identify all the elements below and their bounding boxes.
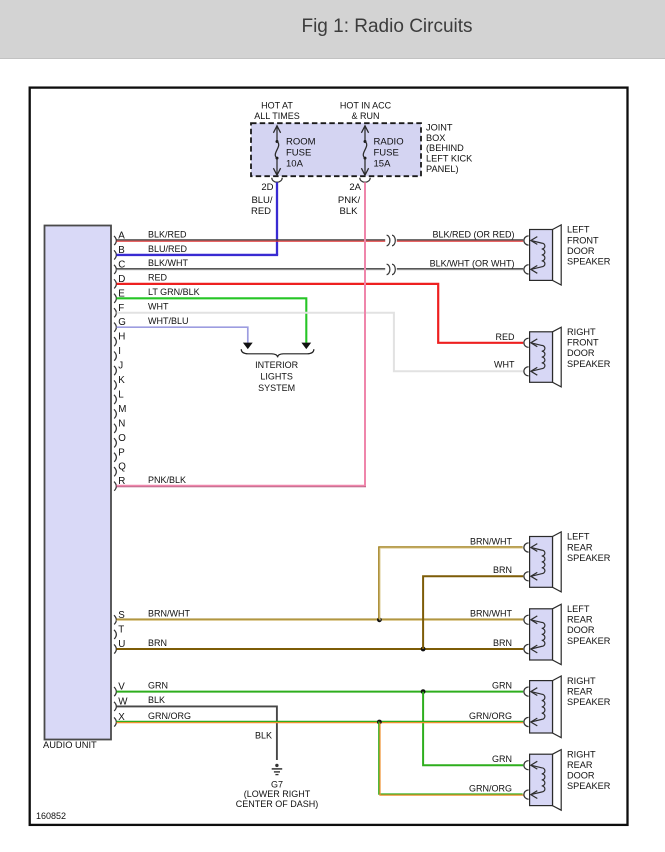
pin Q of audio unit (114, 462, 126, 477)
speaker body SP6 (530, 754, 553, 805)
speaker pin 1 arrow SP6 (531, 761, 538, 769)
interior lights system bracket (241, 349, 314, 357)
label SP4 name (567, 604, 611, 646)
pin J of audio unit (114, 361, 123, 376)
svg-text:15A: 15A (374, 158, 392, 169)
svg-text:J: J (118, 361, 123, 372)
svg-text:LEFT KICK: LEFT KICK (426, 153, 473, 163)
svg-text:P: P (118, 447, 125, 458)
svg-text:RIGHT: RIGHT (567, 749, 596, 759)
fuse element at x=277 (273, 126, 280, 175)
speaker horn SP4 (553, 604, 562, 664)
svg-text:FRONT: FRONT (567, 338, 599, 348)
pin T of audio unit (114, 624, 124, 639)
svg-text:SPEAKER: SPEAKER (567, 553, 611, 563)
wire A BLK/RED right segment to left front door speaker (397, 239, 523, 241)
svg-text:SPEAKER: SPEAKER (567, 781, 611, 791)
connector cup pin 1 SP6 (524, 761, 529, 770)
svg-text:O: O (118, 433, 126, 444)
inline connector on wire C (387, 264, 396, 274)
wire C BLK/WHT left segment (117, 268, 386, 270)
svg-text:BLK/RED (OR RED): BLK/RED (OR RED) (432, 230, 514, 240)
fuse value label (374, 137, 404, 170)
speaker pin 2 arrow SP3 (531, 572, 538, 580)
label SP6 name (567, 749, 611, 791)
svg-text:GRN: GRN (148, 680, 168, 690)
svg-text:L: L (118, 389, 124, 400)
svg-text:REAR: REAR (567, 760, 593, 770)
connector cup below fuse (360, 178, 370, 183)
label HOT AT ALL TIMES (254, 101, 300, 121)
pin C of audio unit (114, 259, 125, 274)
svg-text:BRN/WHT: BRN/WHT (470, 609, 512, 619)
wire X GRN/ORG to right rear speaker (117, 720, 524, 722)
speaker pin 1 arrow SP4 (531, 616, 538, 624)
svg-text:BOX: BOX (426, 133, 445, 143)
svg-text:LEFT: LEFT (567, 225, 590, 235)
wire C BLK/WHT right segment to left front door speaker (397, 268, 523, 270)
label G7 (LOWER RIGHT CENTER OF DASH) (236, 780, 319, 810)
speaker pin 1 arrow SP1 (531, 237, 538, 245)
speaker pin 2 arrow SP4 (531, 645, 538, 653)
speaker coil SP6 (531, 765, 545, 794)
svg-text:REAR: REAR (567, 542, 593, 552)
svg-text:M: M (118, 404, 126, 415)
pin G of audio unit (114, 317, 126, 332)
speaker coil SP4 (531, 620, 545, 649)
svg-text:LEFT: LEFT (567, 532, 590, 542)
pin N of audio unit (114, 418, 125, 433)
speaker pin 2 arrow SP6 (531, 791, 538, 799)
pin K of audio unit (114, 375, 125, 390)
wire W BLK to ground G7 (117, 706, 277, 760)
speaker body SP1 (530, 230, 553, 281)
svg-text:SYSTEM: SYSTEM (258, 383, 295, 393)
pin O of audio unit (114, 433, 126, 448)
speaker pin 2 arrow SP1 (531, 266, 538, 274)
svg-text:BLK: BLK (340, 206, 359, 217)
speaker horn SP1 (553, 225, 562, 285)
wire GRN branch to right rear door speaker (423, 692, 523, 766)
label SP2 name (567, 327, 611, 369)
svg-text:BLK: BLK (255, 731, 272, 741)
svg-text:GRN: GRN (492, 680, 512, 690)
svg-text:RIGHT: RIGHT (567, 676, 596, 686)
connector cup pin 1 SP3 (524, 543, 529, 552)
svg-text:RED: RED (495, 332, 515, 342)
svg-text:10A: 10A (286, 158, 304, 169)
wire B BLU/RED from pin B to fuse branch (117, 254, 279, 256)
arrow to interior lights (left) (243, 343, 253, 350)
svg-text:& RUN: & RUN (351, 111, 379, 121)
junction on wire X (377, 720, 382, 725)
speaker horn SP3 (553, 532, 562, 592)
svg-text:LT GRN/BLK: LT GRN/BLK (148, 287, 200, 297)
svg-text:INTERIOR: INTERIOR (255, 360, 299, 370)
wire V GRN to right rear speaker (117, 691, 524, 693)
svg-text:BLK/WHT: BLK/WHT (148, 258, 189, 268)
speaker body SP2 (530, 332, 553, 383)
speaker body SP5 (530, 681, 553, 733)
svg-text:K: K (118, 375, 125, 386)
svg-text:BRN/WHT: BRN/WHT (148, 609, 190, 619)
svg-text:DOOR: DOOR (567, 771, 595, 781)
label SP3 name (567, 532, 611, 563)
svg-text:H: H (118, 332, 125, 343)
svg-text:I: I (118, 346, 121, 357)
svg-text:BRN/WHT: BRN/WHT (470, 536, 512, 546)
svg-text:BRN: BRN (148, 638, 167, 648)
arrow to interior lights (right) (301, 343, 311, 350)
svg-text:PNK/BLK: PNK/BLK (148, 475, 186, 485)
svg-text:REAR: REAR (567, 615, 593, 625)
svg-text:SPEAKER: SPEAKER (567, 697, 611, 707)
label HOT IN ACC & RUN (340, 101, 392, 121)
fuse value label (286, 137, 316, 170)
wire R PNK/BLK from pin R to fuse F2 (117, 485, 367, 487)
connector cup pin 2 SP3 (524, 572, 529, 581)
svg-text:(BEHIND: (BEHIND (426, 143, 464, 153)
junction on wire U (421, 647, 426, 652)
pin W of audio unit (114, 696, 128, 711)
svg-text:RED: RED (251, 206, 271, 217)
pin B of audio unit (114, 245, 125, 260)
speaker pin 2 arrow SP5 (531, 718, 538, 726)
connector cup pin 2 SP1 (524, 265, 529, 274)
svg-text:SPEAKER: SPEAKER (567, 359, 611, 369)
label SP1 name (567, 225, 611, 267)
svg-text:LEFT: LEFT (567, 604, 590, 614)
inline connector on wire A (387, 235, 396, 245)
svg-text:RED: RED (148, 273, 168, 283)
connector cup pin 1 SP1 (524, 236, 529, 245)
speaker pin 1 arrow SP5 (531, 688, 538, 696)
svg-text:DOOR: DOOR (567, 348, 595, 358)
speaker body SP4 (530, 609, 553, 660)
pin X of audio unit (114, 712, 125, 727)
svg-text:2D: 2D (261, 182, 273, 193)
svg-text:GRN/ORG: GRN/ORG (469, 784, 512, 794)
connector cup pin 2 SP6 (524, 790, 529, 799)
svg-text:WHT/BLU: WHT/BLU (148, 316, 189, 326)
label INTERIOR LIGHTS SYSTEM (255, 360, 299, 393)
svg-text:FUSE: FUSE (286, 148, 311, 159)
svg-text:DOOR: DOOR (567, 625, 595, 635)
speaker coil SP5 (531, 692, 545, 722)
svg-text:(LOWER RIGHT: (LOWER RIGHT (244, 789, 311, 799)
svg-text:RIGHT: RIGHT (567, 327, 596, 337)
header title bar (0, 0, 665, 59)
svg-text:ROOM: ROOM (286, 137, 316, 148)
wire S BRN/WHT to left rear door speaker (117, 618, 524, 620)
svg-text:PANEL): PANEL) (426, 164, 459, 174)
speaker pin 1 arrow SP2 (531, 339, 538, 347)
svg-text:Q: Q (118, 462, 126, 473)
connector cup pin 1 SP2 (524, 338, 529, 347)
svg-text:JOINT: JOINT (426, 122, 453, 132)
speaker coil SP1 (531, 241, 545, 270)
connector cup pin 1 SP4 (524, 615, 529, 624)
svg-text:LIGHTS: LIGHTS (260, 372, 293, 382)
svg-text:FUSE: FUSE (374, 148, 399, 159)
svg-text:WHT: WHT (148, 302, 169, 312)
svg-text:REAR: REAR (567, 686, 593, 696)
wire A BLK/RED left segment (117, 239, 386, 241)
pin S of audio unit (114, 610, 125, 625)
svg-text:BLK: BLK (148, 695, 165, 705)
label JOINT BOX (BEHIND LEFT KICK PANEL) (426, 122, 473, 173)
pin M of audio unit (114, 404, 126, 419)
svg-text:WHT: WHT (494, 360, 515, 370)
pin D of audio unit (114, 274, 125, 289)
wire D RED to right front door speaker (117, 284, 524, 343)
pin F of audio unit (114, 303, 124, 318)
svg-text:FRONT: FRONT (567, 235, 599, 245)
svg-text:BLK/WHT (OR WHT): BLK/WHT (OR WHT) (430, 258, 515, 268)
connector cup pin 1 SP5 (524, 687, 529, 696)
svg-text:AUDIO UNIT: AUDIO UNIT (43, 740, 97, 750)
svg-text:T: T (118, 624, 124, 635)
svg-text:CENTER OF DASH): CENTER OF DASH) (236, 799, 319, 809)
svg-text:DOOR: DOOR (567, 246, 595, 256)
svg-text:HOT AT: HOT AT (261, 101, 293, 111)
svg-text:N: N (118, 418, 125, 429)
connector cup below fuse (272, 178, 282, 183)
speaker body SP3 (530, 537, 553, 588)
diagram border frame (30, 88, 628, 825)
speaker pin 1 arrow SP3 (531, 544, 538, 552)
speaker horn SP6 (553, 750, 562, 811)
junction on wire V (421, 689, 426, 694)
wire F WHT to right front door speaker (117, 313, 524, 372)
speaker horn SP2 (553, 327, 562, 387)
svg-text:SPEAKER: SPEAKER (567, 257, 611, 267)
svg-text:BLU/: BLU/ (251, 195, 272, 206)
pin I of audio unit (114, 346, 121, 361)
wire BRN/WHT branch to left rear speaker (379, 547, 523, 619)
svg-text:160852: 160852 (36, 811, 66, 821)
pin A of audio unit (114, 231, 125, 246)
pin P of audio unit (114, 447, 125, 462)
label SP5 name (567, 676, 611, 707)
wire 2D BLU/RED vertical from fuse F1 to pin B row (276, 182, 278, 255)
svg-text:BLK/RED: BLK/RED (148, 229, 187, 239)
pin R of audio unit (114, 476, 125, 491)
speaker coil SP3 (531, 548, 545, 577)
svg-text:2A: 2A (349, 182, 361, 193)
speaker pin 2 arrow SP2 (531, 367, 538, 375)
pin E of audio unit (114, 288, 125, 303)
audio unit U1 (45, 226, 112, 740)
wire U BRN to left rear door speaker (117, 648, 524, 650)
pin L of audio unit (114, 389, 124, 404)
wire GRN/ORG branch to right rear door speaker (379, 721, 523, 794)
speaker horn SP5 (553, 676, 562, 738)
wire E LT GRN/BLK to interior lights system (117, 298, 307, 343)
svg-text:GRN/ORG: GRN/ORG (469, 711, 512, 721)
svg-text:BRN: BRN (493, 565, 512, 575)
joint box (fuse box) (251, 123, 421, 176)
pin H of audio unit (114, 332, 125, 347)
svg-text:HOT IN ACC: HOT IN ACC (340, 101, 392, 111)
svg-text:BRN: BRN (493, 638, 512, 648)
wire G WHT/BLU to interior lights system (117, 327, 248, 343)
pin V of audio unit (114, 682, 125, 697)
fuse element at x=365 (361, 126, 368, 175)
pin U of audio unit (114, 639, 125, 654)
junction on wire S (377, 617, 382, 622)
wire BRN branch to left rear speaker (423, 576, 523, 649)
svg-text:GRN/ORG: GRN/ORG (148, 711, 191, 721)
svg-text:BLU/RED: BLU/RED (148, 244, 188, 254)
svg-text:RADIO: RADIO (374, 137, 404, 148)
svg-text:ALL TIMES: ALL TIMES (254, 111, 300, 121)
label BLU/RED (2D wire) (251, 195, 273, 217)
label PNK/BLK (2A wire) (338, 195, 361, 217)
svg-text:PNK/: PNK/ (338, 195, 361, 206)
wire 2A PNK/BLK vertical from fuse F2 to pin R row (364, 182, 366, 487)
connector cup pin 2 SP4 (524, 644, 529, 653)
connector cup pin 2 SP5 (524, 717, 529, 726)
svg-text:GRN: GRN (492, 754, 512, 764)
ground G7 symbol (272, 764, 283, 775)
connector cup pin 2 SP2 (524, 367, 529, 376)
speaker coil SP2 (531, 343, 545, 372)
svg-text:SPEAKER: SPEAKER (567, 636, 611, 646)
